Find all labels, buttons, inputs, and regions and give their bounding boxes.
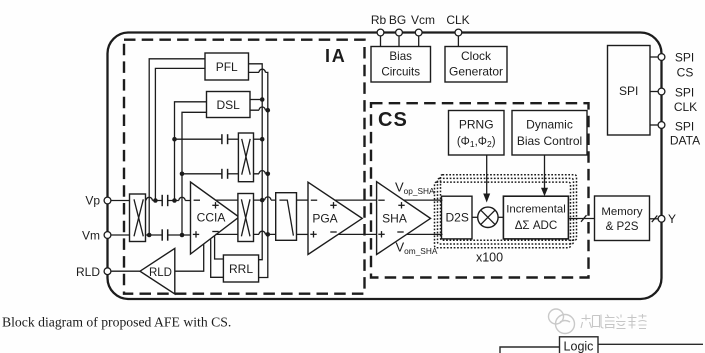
op-amp CCIA bbox=[191, 182, 240, 254]
wire DSL out1 to bus1 bbox=[250, 99, 262, 101]
wire PFL input B (from Vp line) bbox=[155, 68, 205, 200]
wire feedback row1 chopper to bus1 bbox=[254, 138, 263, 140]
svg-text:SHA: SHA bbox=[382, 212, 407, 226]
terminal Rb bbox=[377, 29, 384, 36]
svg-text:Memory: Memory bbox=[601, 206, 642, 218]
terminal Vcm bbox=[415, 29, 422, 36]
terminal SPI CS bbox=[658, 54, 665, 61]
wire CLK to Clock Generator bbox=[457, 36, 459, 47]
wire feedback row2 chopper to bus2 with hop over bus1 bbox=[254, 171, 268, 174]
svg-text:Y: Y bbox=[668, 212, 676, 226]
watermark logo bbox=[549, 309, 575, 334]
wire RRL left upper bbox=[215, 236, 224, 259]
svg-text:Block diagram of proposed AFE: Block diagram of proposed AFE with CS. bbox=[2, 315, 231, 330]
wire Dynamic Bias Control to ADC with arrowhead bbox=[544, 155, 546, 188]
block PFL bbox=[205, 53, 249, 80]
wire RLD output bbox=[111, 270, 140, 272]
CS region border bbox=[371, 103, 589, 277]
svg-text:Incremental: Incremental bbox=[506, 203, 566, 215]
wire SPI box to DATA pad bbox=[650, 124, 658, 126]
block SPI bbox=[608, 46, 651, 136]
SHA plus input bbox=[378, 233, 384, 235]
block Memory & P2S bbox=[595, 196, 650, 241]
terminal RLD bbox=[104, 268, 111, 275]
svg-text:D2S: D2S bbox=[446, 211, 469, 225]
wire feedback row1 cap to chopper bbox=[228, 138, 239, 140]
svg-text:DATA: DATA bbox=[670, 134, 700, 148]
terminal Vm bbox=[104, 232, 111, 239]
PGA plus input bbox=[310, 233, 316, 235]
wire feedback row2 left bbox=[182, 173, 222, 175]
svg-text:Vp: Vp bbox=[85, 194, 100, 208]
wire SPI box to CS pad bbox=[650, 56, 658, 58]
IA region border bbox=[124, 40, 365, 294]
wire mixer to ADC bbox=[498, 216, 503, 218]
x100 replication stack back bbox=[441, 175, 577, 241]
mixer (multiplier) bbox=[478, 207, 498, 227]
op-amp RLD bbox=[140, 248, 175, 294]
wire Vp terminal to input chopper bbox=[111, 200, 130, 202]
block Logic (partial, bottom edge) bbox=[500, 337, 703, 353]
svg-text:Vm: Vm bbox=[82, 229, 100, 243]
CCIA plus output bbox=[212, 204, 218, 206]
SHA minus input bbox=[378, 199, 384, 201]
svg-text:RLD: RLD bbox=[76, 265, 100, 279]
junction dots bbox=[147, 97, 270, 237]
wire PFL input A (from Vm line) bbox=[149, 59, 205, 235]
svg-text:IA: IA bbox=[325, 46, 347, 66]
wire Vm chopper to cap bbox=[146, 234, 163, 236]
watermark text bbox=[581, 314, 647, 329]
wire filter to PGA top bbox=[297, 199, 309, 201]
wire DSL input D (from Vm line) bbox=[182, 112, 207, 235]
svg-text:SPI: SPI bbox=[619, 84, 638, 98]
svg-text:RRL: RRL bbox=[229, 262, 253, 276]
svg-text:SPI: SPI bbox=[675, 51, 694, 65]
PGA minus output bbox=[330, 231, 336, 233]
chip outline bbox=[108, 33, 662, 300]
terminal Vp bbox=[104, 197, 111, 204]
capacitor feedback row1 bbox=[221, 134, 223, 144]
chopper feedback bbox=[238, 133, 253, 182]
wire feedback row1 left bbox=[175, 138, 222, 140]
terminal BG bbox=[396, 29, 403, 36]
node feedback row2 left bbox=[180, 172, 185, 177]
block Incremental Delta-Sigma ADC bbox=[503, 196, 568, 239]
wire PGA to SHA top bbox=[335, 199, 377, 201]
svg-text:BG: BG bbox=[389, 13, 406, 27]
svg-text:SPI: SPI bbox=[675, 120, 694, 134]
chopper output bbox=[238, 194, 254, 242]
svg-text:& P2S: & P2S bbox=[606, 220, 639, 233]
CCIA plus input bbox=[193, 233, 199, 235]
terminal Y bbox=[658, 215, 665, 222]
terminal CLK bbox=[455, 29, 462, 36]
svg-text:CLK: CLK bbox=[674, 100, 697, 114]
wire PGA to SHA bottom bbox=[338, 233, 376, 235]
wire BG to Bias Circuits bbox=[398, 36, 400, 47]
node bottom line on bus2 bbox=[266, 232, 271, 237]
svg-text:Bias: Bias bbox=[389, 50, 412, 63]
wire RRL left lower bbox=[211, 239, 224, 277]
terminal SPI DATA bbox=[658, 122, 665, 129]
svg-text:CLK: CLK bbox=[446, 13, 469, 27]
CCIA minus input bbox=[194, 199, 200, 201]
wire DSL input C (from Vp line) bbox=[175, 102, 207, 201]
PGA plus output bbox=[330, 204, 336, 206]
node row2 on bus2 bbox=[266, 172, 271, 177]
wire Vcm to Bias Circuits bbox=[418, 36, 420, 47]
PGA minus input bbox=[311, 199, 317, 201]
wire bus1 PFL out to RRL bbox=[249, 64, 263, 260]
node row1 on bus1 bbox=[260, 137, 265, 142]
svg-text:RLD: RLD bbox=[149, 267, 172, 279]
node Vm-DSL tap bbox=[180, 233, 185, 238]
node feedback row1 left bbox=[172, 137, 177, 142]
node Vm-PFL tap bbox=[147, 233, 152, 238]
wire Vp cap to CCIA with hop at DSL crossover bbox=[168, 197, 191, 200]
wire Memory to Y with bus slash bbox=[650, 218, 659, 220]
svg-text:x100: x100 bbox=[476, 251, 503, 265]
op-amp PGA bbox=[308, 182, 362, 254]
capacitor input bottom bbox=[161, 229, 163, 240]
svg-text:PFL: PFL bbox=[216, 60, 238, 74]
svg-text:PRNG: PRNG bbox=[459, 118, 494, 132]
svg-text:PGA: PGA bbox=[312, 212, 337, 226]
svg-text:DSL: DSL bbox=[217, 98, 241, 112]
block D2S bbox=[442, 196, 473, 239]
wire Vm terminal to input chopper bbox=[111, 234, 130, 236]
op-amp SHA bbox=[377, 182, 431, 255]
chopper input bbox=[130, 194, 146, 242]
svg-text:Dynamic: Dynamic bbox=[526, 118, 573, 132]
svg-text:ΔΣ ADC: ΔΣ ADC bbox=[515, 219, 558, 232]
wire SHA to D2S bottom bbox=[407, 233, 443, 235]
wire D2S to mixer bbox=[472, 216, 478, 218]
terminal SPI CLK bbox=[658, 88, 665, 95]
SHA plus output bbox=[398, 204, 404, 206]
wire filter to PGA bottom bbox=[297, 233, 309, 235]
block Bias Circuits bbox=[371, 47, 431, 83]
wire PRNG to mixer with arrowhead bbox=[486, 155, 488, 194]
svg-text:Logic: Logic bbox=[564, 340, 594, 353]
svg-text:CCIA: CCIA bbox=[197, 211, 226, 225]
block PRNG U-phi bbox=[449, 111, 505, 156]
wire Rb to Bias Circuits bbox=[380, 36, 382, 47]
wire feedback row2 cap to chopper bbox=[228, 173, 239, 175]
wire DSL out2 to bus2 with hop over bus1 bbox=[250, 107, 268, 110]
svg-text:Vcm: Vcm bbox=[411, 13, 435, 27]
block DSL bbox=[207, 92, 251, 118]
capacitor input top bbox=[161, 195, 163, 206]
CCIA minus output bbox=[212, 231, 218, 233]
wire CCIA output bottom bbox=[215, 233, 238, 235]
capacitor feedback row2 bbox=[221, 169, 223, 179]
svg-text:Bias Control: Bias Control bbox=[517, 134, 582, 148]
wire Vm cap to CCIA bbox=[168, 234, 191, 236]
node Vp-PFL tap bbox=[153, 198, 158, 203]
wire bus2 PFL out to RRL with hop over bus1 bbox=[249, 69, 268, 277]
wire CCIA output top bbox=[216, 199, 238, 201]
node DSL out1 on bus1 bbox=[260, 97, 265, 102]
svg-text:SPI: SPI bbox=[675, 86, 694, 100]
x100 replication stack middle bbox=[438, 178, 574, 244]
block Dynamic Bias Control bbox=[512, 111, 587, 156]
block Clock Generator bbox=[445, 47, 507, 83]
svg-text:Generator: Generator bbox=[449, 65, 503, 79]
anti-aliasing filter bbox=[276, 193, 297, 241]
svg-text:CS: CS bbox=[677, 66, 694, 80]
block RRL bbox=[223, 255, 258, 282]
svg-text:Clock: Clock bbox=[461, 49, 492, 63]
node Vp-DSL tap bbox=[172, 198, 177, 203]
svg-text:Rb: Rb bbox=[371, 13, 387, 27]
node top line on bus1 bbox=[260, 198, 265, 203]
wire SPI box to CLK pad bbox=[650, 91, 658, 93]
wire Vp chopper to cap with hop at PFL crossover bbox=[146, 197, 163, 200]
wire chopper to filter bottom with hop over bus1 bbox=[254, 231, 276, 234]
node DSL out2 on bus2 bbox=[266, 108, 271, 113]
wire SHA to D2S top bbox=[404, 199, 443, 201]
svg-text:Circuits: Circuits bbox=[381, 66, 420, 79]
wire RLD input from CCIA bbox=[175, 244, 204, 271]
svg-text:CS: CS bbox=[378, 109, 408, 131]
SHA minus output bbox=[397, 231, 403, 233]
wire chopper to filter top with hop over bus2 bbox=[254, 197, 276, 200]
x100 replication stack front bbox=[435, 182, 571, 248]
wire ADC to Memory with bus slash bbox=[568, 218, 594, 220]
